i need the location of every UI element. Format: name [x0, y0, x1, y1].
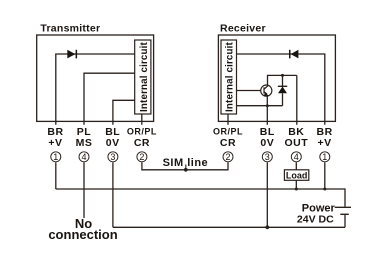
wire: transmitter +V branch	[56, 54, 135, 125]
wire: output column down	[296, 75, 298, 124]
node: receiver 0V junction	[265, 225, 269, 229]
terminal BK OUT (4) receiver	[284, 126, 308, 149]
wire: receiver base drive	[237, 90, 262, 92]
terminal OR/PL CR (2) transmitter	[127, 127, 157, 149]
svg-text:3: 3	[110, 152, 115, 162]
svg-text:Transmitter: Transmitter	[40, 23, 100, 35]
terminal BL 0V (3) transmitter	[105, 126, 120, 149]
wire: transmitter no-connection lead	[83, 162, 85, 218]
terminal OR/PL CR (2) receiver	[213, 127, 243, 149]
svg-text:0V: 0V	[260, 137, 274, 149]
svg-text:4: 4	[294, 152, 299, 162]
receiver internal circuit block	[221, 40, 237, 114]
node: zener top junction	[281, 74, 284, 77]
terminal BR +V (1) transmitter	[47, 126, 63, 149]
transmitter internal circuit block	[135, 40, 151, 114]
wire: 0V rail	[113, 226, 345, 228]
diode D1 (transmitter polarity protection)	[67, 50, 77, 59]
wire: collector to output node	[268, 75, 297, 85]
svg-text:OR/PL: OR/PL	[213, 127, 243, 137]
svg-text:Internal circuit: Internal circuit	[225, 41, 236, 111]
svg-text:connection: connection	[48, 227, 117, 242]
wire: load to +V rail	[295, 180, 297, 189]
svg-text:Receiver: Receiver	[220, 23, 266, 35]
svg-text:MS: MS	[76, 137, 93, 149]
svg-text:CR: CR	[134, 137, 150, 149]
battery BT1 (24V DC)	[335, 207, 351, 227]
node: load/+V junction	[295, 188, 298, 191]
svg-text:24V DC: 24V DC	[297, 213, 334, 225]
svg-text:Load: Load	[286, 171, 308, 181]
no connection label	[48, 216, 117, 242]
terminal PL MS (4) transmitter	[76, 126, 93, 149]
svg-text:1: 1	[53, 152, 58, 162]
transmitter box	[37, 35, 154, 121]
svg-text:2: 2	[139, 152, 144, 162]
svg-text:0V: 0V	[106, 137, 120, 149]
svg-text:CR: CR	[220, 137, 236, 149]
power supply label	[297, 202, 336, 225]
SIM line leader tick	[185, 165, 187, 170]
terminal BL 0V (3) receiver	[260, 126, 275, 149]
wire: emitter down to 0V column	[266, 96, 268, 125]
svg-text:OR/PL: OR/PL	[127, 127, 157, 137]
node: emitter/rail junction	[266, 104, 269, 107]
wire: receiver +V branch	[237, 54, 325, 125]
receiver box	[218, 35, 335, 121]
wire: receiver 0V down	[266, 162, 268, 227]
wire: receiver lower internal rail	[237, 105, 283, 107]
transistor Q1 (output transistor)	[261, 85, 272, 96]
node: SIM line dot	[184, 168, 188, 172]
node: receiver +V junction	[323, 188, 326, 191]
svg-text:Internal circuit: Internal circuit	[139, 41, 150, 111]
wire: transmitter MS branch	[84, 73, 135, 125]
wire: receiver CR stub	[227, 114, 229, 125]
svg-text:+V: +V	[318, 137, 332, 149]
svg-text:3: 3	[265, 152, 270, 162]
wire: transmitter CR stub	[141, 114, 143, 125]
load box	[284, 170, 308, 181]
svg-text:1: 1	[322, 152, 327, 162]
svg-text:OUT: OUT	[284, 137, 308, 149]
svg-text:+V: +V	[48, 137, 62, 149]
wire: transmitter 0V branch	[113, 100, 135, 125]
wire: SIM line	[142, 162, 228, 170]
wire: receiver OUT to load	[295, 162, 297, 170]
svg-text:2: 2	[225, 152, 230, 162]
wire: +V rail	[56, 189, 345, 207]
wire: transmitter +V down	[55, 162, 57, 189]
diode D2 (receiver polarity protection)	[289, 50, 298, 59]
wire: transmitter 0V down	[112, 162, 114, 227]
zener diode D3	[278, 75, 287, 105]
wire: receiver +V down	[324, 162, 326, 189]
terminal BR +V (1) receiver	[317, 126, 333, 149]
svg-text:4: 4	[81, 152, 86, 162]
